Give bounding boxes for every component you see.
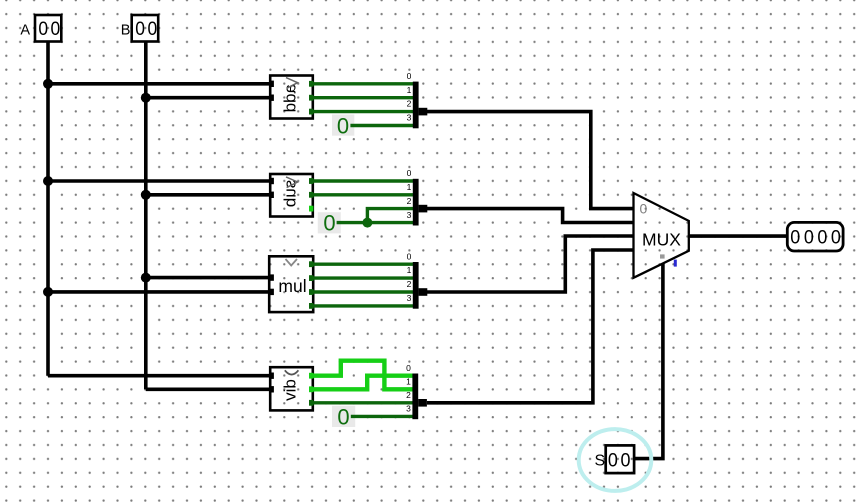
svg-text:1: 1 (407, 265, 412, 275)
wire div out2 (311, 401, 413, 404)
junction A add (43, 79, 53, 89)
svg-text:2: 2 (407, 196, 412, 206)
svg-text:0: 0 (406, 363, 411, 373)
wire add splitter to mux in0 (427, 112, 634, 209)
wire const0 to sub splitter leg3 (337, 221, 413, 224)
svg-text:2: 2 (407, 99, 412, 109)
svg-text:0: 0 (407, 168, 412, 178)
wire mul out1 (311, 276, 413, 279)
svg-text:0: 0 (147, 17, 157, 39)
svg-text:A: A (20, 22, 30, 38)
wire add out2 (311, 110, 413, 113)
wire mul out3 (311, 304, 413, 307)
wire sub out0 (311, 179, 413, 182)
svg-text:0: 0 (621, 449, 631, 471)
svg-text:0: 0 (640, 201, 648, 217)
junction B sub (141, 190, 151, 200)
wire A to sub input0 (48, 179, 272, 183)
constant 0 for div bit3 (332, 404, 355, 429)
wire div out1 crossover (value 1) (311, 376, 413, 390)
svg-text:S: S (594, 453, 605, 470)
wire A to div input0 (48, 374, 272, 378)
wire B to sub input1 (146, 193, 272, 197)
input pin S (594, 445, 634, 473)
svg-text:div: div (281, 379, 300, 401)
constant 0 for add bit3 (332, 113, 354, 138)
wire sub out1 (311, 193, 413, 196)
wire A to mul input1 (48, 290, 272, 294)
svg-text:0: 0 (135, 17, 145, 39)
svg-text:2: 2 (407, 279, 412, 289)
junction A mul (43, 287, 53, 297)
wire div out0 crossover (value 1) (311, 361, 413, 390)
subcircuit mul (269, 256, 313, 312)
svg-text:0: 0 (831, 226, 841, 248)
svg-text:1: 1 (406, 377, 411, 387)
svg-text:1: 1 (407, 182, 412, 192)
input pin B (121, 15, 158, 42)
wire mux select (634, 263, 663, 458)
svg-text:MUX: MUX (642, 230, 681, 250)
wire A vertical bus (46, 42, 50, 376)
subcircuit div (269, 367, 313, 410)
wire const0 to add splitter leg3 (350, 124, 413, 127)
junction B mul (141, 273, 151, 283)
svg-text:3: 3 (407, 293, 412, 303)
splitter div (406, 363, 427, 419)
wire mul splitter to mux in2 (427, 236, 634, 292)
input pin A (20, 15, 61, 42)
svg-text:0: 0 (337, 404, 349, 429)
subcircuit add (269, 76, 313, 119)
svg-text:mul: mul (278, 276, 306, 296)
svg-text:0: 0 (790, 226, 800, 248)
wire add out0 (311, 82, 413, 85)
svg-text:sub: sub (281, 180, 300, 207)
svg-text:3: 3 (407, 113, 412, 123)
splitter add (407, 71, 428, 128)
wire B vertical bus (144, 42, 148, 390)
svg-text:0: 0 (38, 17, 48, 39)
wire const0 to div splitter leg3 (351, 415, 413, 418)
junction A sub (43, 176, 53, 186)
svg-text:3: 3 (407, 210, 412, 220)
wire div splitter to mux in3 (427, 250, 634, 403)
wire mux output (689, 234, 788, 238)
svg-text:0: 0 (817, 226, 827, 248)
svg-text:0: 0 (804, 226, 814, 248)
svg-text:0: 0 (323, 211, 335, 236)
junction const0 sub (362, 218, 372, 228)
svg-text:0: 0 (407, 71, 412, 81)
wire mul out2 (311, 290, 413, 293)
svg-text:0: 0 (608, 449, 618, 471)
wire B to mul input0 (146, 276, 272, 280)
svg-text:0: 0 (407, 251, 412, 261)
wire A to add input0 (48, 82, 272, 86)
svg-text:0: 0 (337, 113, 349, 138)
wire mul out0 (311, 263, 413, 266)
multiplexer U1 (634, 193, 689, 278)
subcircuit sub (269, 174, 313, 217)
wire B to add input1 (146, 96, 272, 100)
splitter sub (407, 168, 428, 225)
output pin (4-bit result) (787, 222, 843, 251)
wire sub splitter to mux in1 (427, 209, 634, 223)
splitter mul (407, 251, 428, 308)
svg-text:B: B (121, 22, 131, 38)
constant 0 for sub bits2-3 (318, 211, 341, 236)
wire B to div input1 (146, 387, 272, 391)
svg-text:2: 2 (406, 390, 411, 400)
selection halo around pin S (579, 429, 652, 491)
junction B add (141, 93, 151, 103)
svg-text:add: add (281, 84, 300, 112)
svg-text:1: 1 (407, 85, 412, 95)
svg-text:3: 3 (406, 404, 411, 414)
svg-text:0: 0 (51, 17, 61, 39)
wire branch to sub splitter leg2 (367, 209, 413, 223)
wire add out1 (311, 96, 413, 99)
